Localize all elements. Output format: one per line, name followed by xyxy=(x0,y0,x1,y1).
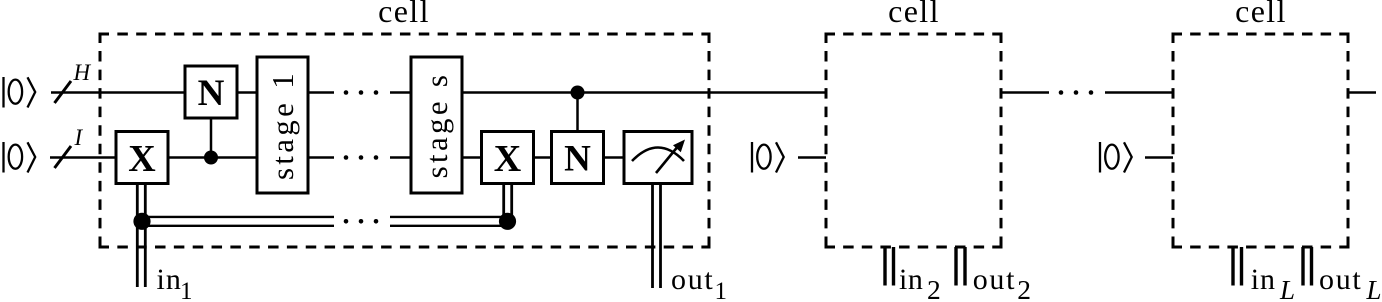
svg-text:cell: cell xyxy=(378,0,430,29)
svg-text:out: out xyxy=(1319,263,1362,296)
svg-text:1: 1 xyxy=(715,278,728,302)
svg-text:cell: cell xyxy=(1235,0,1287,29)
svg-text:stage 1: stage 1 xyxy=(265,70,300,180)
svg-text:L: L xyxy=(1366,275,1382,302)
svg-text:out: out xyxy=(973,263,1016,296)
svg-text:X: X xyxy=(128,138,155,180)
svg-text:N: N xyxy=(198,73,225,114)
svg-text:in: in xyxy=(899,263,924,296)
svg-text:1: 1 xyxy=(180,278,193,302)
svg-text:stage s: stage s xyxy=(419,72,454,179)
svg-text:in: in xyxy=(1251,263,1276,296)
svg-text:H: H xyxy=(73,60,92,85)
svg-text:2: 2 xyxy=(1017,274,1031,302)
svg-text:N: N xyxy=(564,139,591,180)
svg-text:L: L xyxy=(1279,275,1295,302)
svg-text:in: in xyxy=(157,263,182,296)
svg-text:X: X xyxy=(494,138,521,180)
svg-text:I: I xyxy=(74,125,84,150)
svg-text:2: 2 xyxy=(927,274,941,302)
svg-text:cell: cell xyxy=(888,0,940,29)
svg-text:out: out xyxy=(671,263,714,296)
